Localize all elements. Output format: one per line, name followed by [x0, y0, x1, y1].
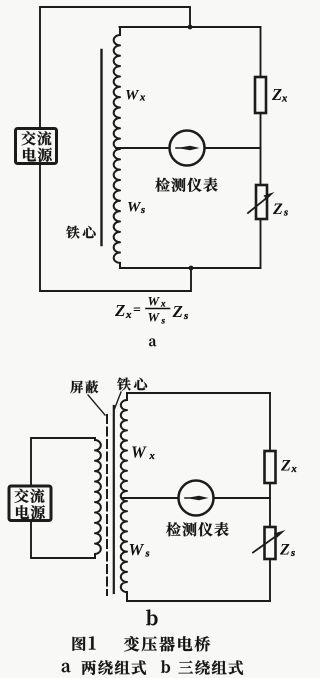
resistor Zs variable (circuit b) — [265, 527, 276, 559]
svg-text:W: W — [148, 310, 161, 325]
caption 图 — [73, 637, 86, 651]
primary winding (circuit b) — [95, 440, 101, 554]
node: bottom junction dot (circuit a) — [189, 266, 194, 271]
wire: right branch lower (circuit b) — [269, 559, 271, 601]
wire: between Zx and Zs (circuit a) — [260, 113, 262, 185]
iron core line (circuit a) — [100, 50, 102, 245]
sub-figure label b — [146, 609, 157, 625]
caption 两绕组式 — [82, 660, 146, 675]
svg-text:s: s — [283, 208, 288, 219]
svg-text:x: x — [125, 309, 132, 321]
sub-figure label a — [149, 339, 156, 347]
caption b — [161, 660, 170, 673]
svg-text:x: x — [139, 93, 145, 104]
wire: right branch lower (circuit a) — [260, 219, 262, 268]
AC source box (circuit b) — [9, 486, 51, 521]
formula Zx = (Wx/Ws) Zs — [114, 294, 188, 326]
svg-text:=: = — [133, 303, 141, 318]
svg-text:x: x — [291, 464, 297, 475]
svg-text:Z: Z — [172, 302, 183, 321]
svg-text:Z: Z — [271, 85, 282, 104]
arrow through Zs (circuit a) — [248, 196, 269, 213]
wire: right branch upper (circuit b) — [269, 393, 271, 451]
wire: return to AC source (circuit a) — [40, 165, 191, 291]
svg-text:W: W — [129, 540, 145, 559]
wire: between Zx and Zs (circuit b) — [269, 483, 271, 527]
svg-text:s: s — [183, 310, 188, 322]
shield dashed line (circuit b) — [106, 415, 108, 595]
label 交流 (AC, circuit b) — [14, 489, 44, 503]
resistor Zs variable (circuit a) — [256, 185, 267, 219]
label 电源 (source, circuit a) — [23, 148, 52, 162]
svg-text:s: s — [140, 205, 145, 216]
svg-text:x: x — [160, 299, 166, 309]
wire: tap to detector (circuit b) — [122, 497, 179, 499]
svg-text:Z: Z — [280, 458, 291, 475]
svg-text:x: x — [281, 94, 287, 105]
secondary winding Wx/Ws (circuit b) — [126, 393, 128, 400]
caption a — [62, 663, 71, 672]
caption 1 — [89, 636, 96, 649]
wire: right branch upper (circuit a) — [260, 27, 262, 77]
svg-text:W: W — [127, 200, 142, 216]
label 电源 (source, circuit b) — [16, 505, 45, 519]
svg-text:W: W — [148, 294, 161, 309]
transformer winding Wx/Ws (circuit a) — [119, 27, 121, 35]
label 屏蔽 (circuit b) — [70, 381, 98, 394]
svg-text:x: x — [149, 451, 155, 462]
svg-text:s: s — [161, 316, 166, 326]
wire: detector to right branch (circuit b) — [214, 497, 271, 499]
wire: AC source top lead to bridge top node (circuit a) — [40, 7, 190, 127]
caption 三绕组式 — [179, 660, 244, 674]
svg-text:Z: Z — [114, 301, 125, 320]
wire: AC source loop top (circuit b) — [31, 438, 95, 486]
wire: bridge top (circuit a) — [120, 26, 261, 28]
label 检测仪表 (circuit b) — [166, 522, 228, 536]
wire: detector to right branch (circuit a) — [205, 147, 261, 149]
svg-text:s: s — [145, 549, 150, 560]
wire: tap to detector (circuit a) — [116, 147, 169, 149]
label 交流 (AC, circuit a) — [21, 131, 51, 145]
svg-text:W: W — [125, 88, 140, 104]
AC source box (circuit a) — [16, 129, 57, 164]
caption 变压器电桥 — [124, 636, 210, 651]
wire: bridge bottom (circuit a) — [120, 267, 261, 269]
svg-text:Z: Z — [279, 542, 290, 559]
svg-text:Z: Z — [272, 201, 283, 218]
resistor Zx (circuit a) — [255, 77, 266, 113]
label 铁心 (circuit a) — [66, 226, 96, 239]
label 铁心 (circuit b) — [117, 378, 147, 391]
label 检测仪表 (circuit a) — [155, 178, 217, 192]
detector meter U1 (circuit a) — [170, 131, 205, 166]
wire: bridge bottom (circuit b) — [127, 600, 270, 602]
wire: AC source loop bottom (circuit b) — [31, 520, 95, 558]
node: top junction dot (circuit a) — [188, 25, 193, 30]
svg-text:s: s — [290, 548, 295, 559]
resistor Zx (circuit b) — [265, 451, 276, 483]
svg-text:W: W — [131, 443, 147, 462]
wire: bridge top (circuit b) — [127, 392, 270, 394]
iron core line (circuit b) — [113, 406, 115, 593]
detector meter U2 (circuit b) — [179, 481, 214, 516]
arrow through Zs (circuit b) — [253, 534, 279, 553]
